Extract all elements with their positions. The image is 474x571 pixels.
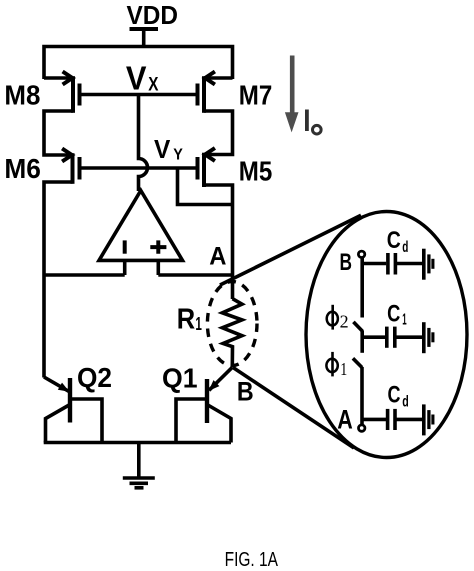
svg-text:M7: M7 bbox=[239, 79, 272, 110]
svg-text:1: 1 bbox=[195, 314, 202, 334]
callout line lower to inset ellipse bbox=[233, 368, 354, 449]
output current arrow Io bbox=[285, 56, 299, 133]
inset node A terminal circle bbox=[359, 425, 365, 431]
transistor M7 source arrow bbox=[205, 72, 215, 85]
op-amp U1 body bbox=[99, 191, 183, 261]
svg-text:M6: M6 bbox=[4, 153, 41, 184]
transistor M6 drain lead and left rail down to Q2 bbox=[44, 182, 73, 378]
inset wire B branch to Cd bbox=[362, 262, 386, 266]
capacitor Cd bottom plates bbox=[386, 409, 390, 430]
svg-text:C: C bbox=[388, 381, 401, 408]
op-amp plus sign bbox=[150, 240, 166, 253]
inset zoom ellipse bbox=[306, 212, 467, 458]
svg-text:Y: Y bbox=[173, 147, 183, 164]
transistor Q2 base bar bbox=[68, 378, 72, 423]
svg-text:B: B bbox=[237, 377, 254, 407]
capacitor C1 plates bbox=[385, 327, 389, 348]
svg-text:2: 2 bbox=[340, 312, 349, 332]
transistor M6 gate bar bbox=[78, 157, 82, 180]
ground middle (sideways, 3 bars) bbox=[422, 322, 426, 353]
ground bars bbox=[123, 476, 155, 480]
svg-text:VDD: VDD bbox=[127, 0, 179, 30]
transistor M5 channel bbox=[202, 153, 206, 187]
wire op-amp minus input to left rail bbox=[44, 273, 125, 277]
svg-text:M8: M8 bbox=[4, 79, 40, 110]
op-amp plus input stub bbox=[157, 260, 161, 275]
transistor M6 channel bbox=[71, 153, 75, 184]
transistor M8 channel bbox=[71, 76, 75, 113]
svg-text:1: 1 bbox=[402, 311, 407, 328]
transistor Q1 collector bbox=[207, 405, 231, 443]
transistor M6 source arrow bbox=[62, 149, 72, 162]
ground stub bbox=[137, 443, 141, 479]
inset wire lower to node A bbox=[360, 367, 364, 425]
inset node B terminal circle bbox=[358, 251, 364, 257]
wire op-amp output to VX with hop over VY bbox=[139, 95, 148, 192]
inset wire B down to switch phi2 bbox=[360, 258, 364, 318]
transistor M5 drain lead and right rail down to node A and R1 bbox=[204, 185, 233, 299]
op-amp inverting input mark bbox=[123, 240, 127, 253]
transistor Q2 emitter wire bbox=[44, 377, 69, 392]
wire VX gate line bbox=[80, 93, 198, 97]
ground bottom (sideways, 3 bars) bbox=[422, 404, 426, 435]
transistor Q1 base lead bbox=[176, 399, 207, 443]
transistor Q2 base lead bbox=[70, 399, 102, 443]
svg-text:V: V bbox=[126, 59, 147, 96]
transistor M8 source arrow bbox=[63, 72, 73, 85]
svg-text:C: C bbox=[387, 227, 401, 254]
callout line upper to inset ellipse bbox=[220, 215, 361, 285]
svg-text:R: R bbox=[177, 304, 195, 336]
wire Cd bottom to ground bbox=[395, 418, 422, 422]
wire bottom rail bbox=[44, 441, 231, 445]
svg-text:Q2: Q2 bbox=[77, 362, 112, 393]
wire VY to M5 drain bbox=[178, 168, 233, 205]
transistor Q1 emitter arrow bbox=[209, 380, 220, 391]
inset wire C1 branch bbox=[362, 335, 386, 339]
inset wire middle bbox=[360, 331, 364, 353]
svg-text:M5: M5 bbox=[239, 156, 272, 187]
switch phi2 arm bbox=[353, 322, 362, 331]
svg-text:1: 1 bbox=[340, 359, 347, 379]
transistor M5 gate bar bbox=[196, 157, 200, 180]
transistor M8 drain lead and rail to M6 bbox=[44, 111, 73, 155]
transistor M7 source lead bbox=[204, 76, 233, 80]
svg-text:d: d bbox=[402, 239, 408, 256]
transistor Q1 emitter wire bbox=[209, 367, 232, 390]
svg-text:Q1: Q1 bbox=[162, 363, 198, 394]
svg-text:FIG. 1A: FIG. 1A bbox=[225, 549, 279, 571]
capacitor Cd top plates bbox=[386, 253, 390, 275]
transistor Q1 base bar bbox=[205, 379, 209, 423]
dashed callout ellipse around R1 bbox=[207, 282, 257, 366]
ground top (sideways, 3 bars) bbox=[422, 249, 426, 280]
svg-text:A: A bbox=[209, 242, 226, 270]
transistor M7 drain lead and rail to M5 bbox=[204, 111, 233, 155]
transistor M7 gate bar bbox=[196, 84, 200, 106]
switch phi1 label bbox=[326, 352, 337, 377]
transistor M8 source lead bbox=[44, 76, 73, 80]
op-amp minus input stub bbox=[123, 260, 127, 275]
svg-text:A: A bbox=[337, 404, 353, 434]
transistor Q2 emitter arrow bbox=[58, 383, 70, 392]
transistor M5 source arrow bbox=[205, 148, 215, 161]
transistor Q2 collector bbox=[46, 405, 71, 443]
VDD supply bar bbox=[130, 27, 159, 31]
wire Cd top to ground bbox=[395, 262, 422, 266]
wire VY gate line bbox=[80, 166, 198, 170]
svg-text:V: V bbox=[154, 134, 171, 164]
svg-text:d: d bbox=[402, 393, 409, 410]
inset wire A branch to Cd bbox=[362, 418, 386, 422]
wire op-amp plus input to node A bbox=[158, 273, 232, 277]
svg-text:B: B bbox=[340, 249, 353, 276]
svg-text:C: C bbox=[387, 300, 400, 327]
Io label bbox=[305, 110, 309, 132]
wire C1 to ground bbox=[395, 335, 423, 339]
wire VDD stub bbox=[142, 29, 146, 47]
transistor M8 gate bar bbox=[78, 84, 82, 106]
resistor R1 bbox=[222, 299, 242, 368]
switch phi1 arm bbox=[353, 358, 362, 367]
transistor M7 channel bbox=[202, 76, 206, 113]
switch phi2 label bbox=[327, 305, 338, 330]
wire top rail bbox=[44, 47, 233, 80]
svg-text:X: X bbox=[148, 73, 158, 95]
